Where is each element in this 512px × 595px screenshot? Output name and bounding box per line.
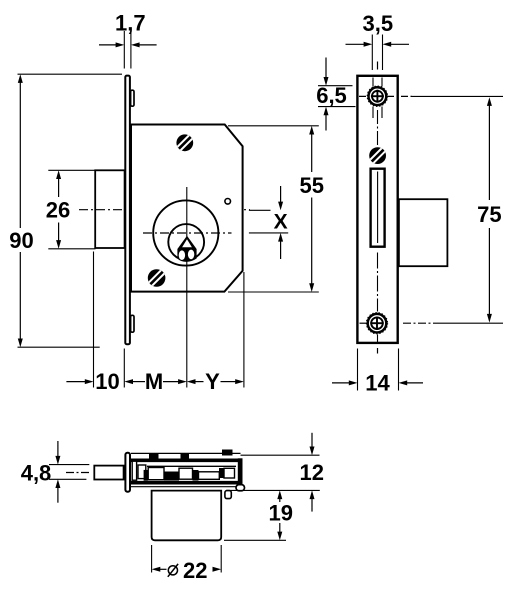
innards top line <box>147 465 236 467</box>
svg-text:6,5: 6,5 <box>316 83 347 108</box>
cylinder vertical center line / extension to M-Y dimension <box>186 187 188 388</box>
cylinder cam tab <box>225 491 231 499</box>
cylinder axis horizontal center line <box>143 232 232 234</box>
body right end cap <box>238 458 243 486</box>
innards rect 6 <box>224 468 235 478</box>
body bottom thin line <box>131 486 238 488</box>
dimension 6,5 extension lines <box>318 85 353 87</box>
dimension 1,7 dimension line and arrows <box>99 44 117 46</box>
innards rect 4 <box>179 468 193 479</box>
dimension 55 dimension line and arrows <box>309 126 314 135</box>
top screw center line horizontal <box>359 95 412 97</box>
svg-text:55: 55 <box>299 173 323 198</box>
dimension X extension lines <box>249 209 271 211</box>
dimension 3,5 dimension line and arrows <box>346 43 366 45</box>
bottom dimension chain extension lines <box>93 252 95 388</box>
dimension 90 extension lines <box>18 73 123 75</box>
faceplate bottom lug <box>131 315 134 332</box>
right end foot <box>236 485 245 491</box>
75 top extension line <box>412 95 503 97</box>
dimension diameter 22 line and arrows <box>152 567 161 572</box>
screw bottom-left (front view, slotted) <box>148 269 166 287</box>
small hole <box>225 199 231 205</box>
svg-text:19: 19 <box>269 500 293 525</box>
clip bump 3 <box>222 450 233 456</box>
clip bump 2 <box>181 453 190 458</box>
latch center line (bottom view) <box>66 472 90 474</box>
clip bump 1 <box>149 453 159 458</box>
svg-text:4,8: 4,8 <box>21 461 52 486</box>
middle screw (side view, slotted) <box>369 147 386 164</box>
dimension 1,7 extension lines <box>123 31 125 69</box>
cylinder housing block (side view) <box>399 199 448 266</box>
75 bottom extension line <box>440 322 503 324</box>
slot side lines upper <box>372 78 374 87</box>
svg-text:10: 10 <box>95 369 119 394</box>
dimension 6,5 dimension line and arrows <box>325 58 327 79</box>
dimension 4,8 dimension line and arrows <box>57 441 59 457</box>
latch bolt (front view) <box>95 170 124 248</box>
diameter symbol <box>168 566 177 575</box>
innards rect 5 <box>199 472 220 480</box>
svg-text:90: 90 <box>9 228 33 253</box>
dimension 90 dimension line and arrows <box>18 74 23 83</box>
svg-text:3,5: 3,5 <box>363 11 394 36</box>
faceplate top lug <box>131 90 134 106</box>
12 bottom / 19 top extension line <box>226 489 320 491</box>
dimension Y line and arrows <box>187 379 196 384</box>
slot (side view) <box>371 169 385 247</box>
keyway profile <box>177 236 196 262</box>
svg-text:X: X <box>274 210 288 233</box>
dimension 75 dimension line and arrows <box>487 97 492 106</box>
keyway bitting cuts <box>182 239 192 247</box>
19 bottom extension line <box>224 539 286 541</box>
dimension 3,5 extension lines <box>371 35 373 71</box>
dimension diameter 22 extension lines <box>151 545 153 573</box>
svg-text:22: 22 <box>183 558 207 583</box>
body top thick band <box>131 458 241 462</box>
bottom screw center line horizontal <box>360 322 369 324</box>
innards black block 2 <box>193 470 199 481</box>
lock body outline <box>131 125 243 292</box>
plate vertical center line segments <box>377 62 379 70</box>
innards black block 3 <box>219 468 224 478</box>
innards black block 1 <box>164 472 179 481</box>
slot center line <box>377 172 379 244</box>
dimension 26 dimension line and arrows <box>56 170 61 179</box>
cylinder outer circle <box>153 200 218 265</box>
dimension 14 dimension line and arrows <box>332 382 350 384</box>
innards: slot after faceplate <box>132 461 136 480</box>
svg-text:Y: Y <box>205 369 220 394</box>
dimension M line and arrows <box>132 381 146 383</box>
dimension X dimension line and arrows <box>280 186 282 203</box>
top screw (side view) <box>367 86 387 106</box>
dimension 26 extension lines <box>48 169 95 171</box>
cylinder (bottom view) <box>152 491 222 541</box>
faceplate plate (side view) <box>357 76 397 343</box>
bottom screw (side view) <box>366 313 387 334</box>
svg-text:M: M <box>145 369 163 394</box>
svg-text:1,7: 1,7 <box>115 11 146 36</box>
innards rect 3 <box>148 468 164 480</box>
dimension 12 dimension line and arrows <box>311 433 313 448</box>
innards rect 2 <box>138 465 146 479</box>
faceplate (front view) <box>125 76 130 345</box>
12 top extension line <box>241 454 320 456</box>
svg-text:75: 75 <box>477 202 501 227</box>
dimension 55 extension lines <box>228 125 319 127</box>
body bottom thick band <box>131 481 241 485</box>
screw top (front view, slotted) <box>176 134 193 151</box>
faceplate bar (bottom view) <box>125 453 130 492</box>
latch bolt (bottom view) <box>94 466 123 480</box>
cylinder core circle <box>168 224 204 260</box>
body top thin line <box>131 452 241 454</box>
svg-text:14: 14 <box>365 371 390 396</box>
dimension 10 line and arrows <box>66 381 86 383</box>
dimension 19 dimension line and arrows <box>277 490 282 499</box>
innards black bar <box>144 470 148 481</box>
dimension 4,8 extension lines <box>49 464 89 466</box>
svg-text:26: 26 <box>46 198 70 223</box>
dimension 14 extension lines <box>357 349 359 391</box>
latch axis center line <box>79 209 250 211</box>
svg-text:12: 12 <box>299 460 323 485</box>
